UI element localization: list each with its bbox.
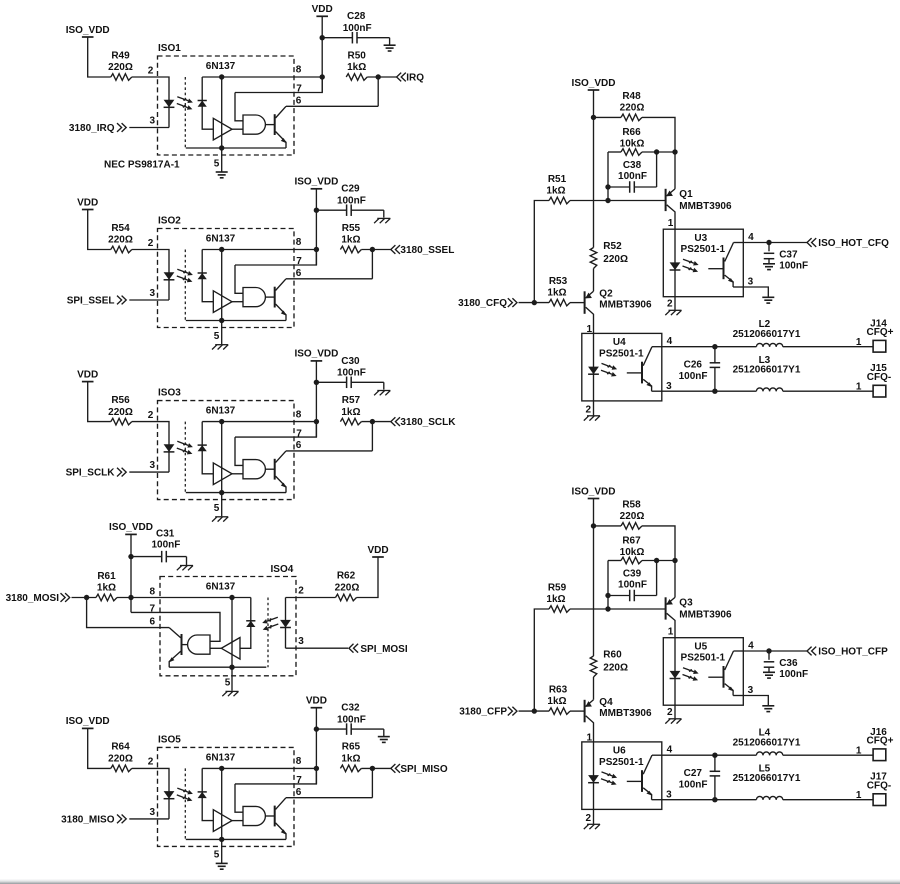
svg-text:3: 3: [298, 636, 304, 647]
svg-text:3: 3: [748, 277, 754, 288]
svg-text:R49: R49: [111, 50, 130, 61]
junction: [314, 419, 319, 424]
svg-text:100nF: 100nF: [779, 669, 808, 680]
wire AND output: [265, 815, 274, 817]
wire Vcc vertical: [221, 77, 223, 148]
net SPI_SCLK chevron: [117, 468, 126, 477]
junction: [84, 595, 89, 600]
wire: [72, 597, 97, 599]
svg-text:6N137: 6N137: [206, 582, 236, 593]
ground (C36): [763, 672, 775, 678]
wire pin 3 row: [662, 390, 757, 392]
opto ISO1 photodiode: [198, 101, 207, 107]
power VDD (right of ISO5): [306, 696, 327, 708]
junction: [712, 389, 717, 394]
junction: [654, 558, 659, 563]
net SPI_MISO chevron: [391, 764, 400, 773]
svg-text:3180_IRQ: 3180_IRQ: [69, 123, 115, 134]
junction: [370, 247, 375, 252]
wire Vcc vertical: [231, 598, 233, 668]
resistor R60: [590, 656, 597, 677]
opto U4 LED: [588, 367, 599, 375]
resistor R64: [111, 765, 132, 772]
capacitor C32: [316, 723, 383, 736]
svg-text:ISO_VDD: ISO_VDD: [294, 349, 338, 360]
svg-text:4: 4: [748, 641, 754, 652]
resistor R59: [549, 606, 570, 613]
svg-text:1kΩ: 1kΩ: [546, 594, 565, 605]
svg-text:220Ω: 220Ω: [108, 754, 133, 765]
svg-text:Q4: Q4: [599, 697, 613, 708]
wire: [593, 677, 595, 700]
svg-text:C30: C30: [341, 356, 360, 367]
svg-text:Q1: Q1: [679, 189, 693, 200]
svg-text:100nF: 100nF: [343, 23, 372, 34]
connector J14: [873, 340, 886, 352]
resistor R54: [111, 246, 132, 253]
svg-text:2: 2: [298, 585, 304, 596]
wire pin 2: [593, 401, 595, 416]
svg-text:2: 2: [148, 410, 154, 421]
junction: [128, 554, 133, 559]
svg-text:2: 2: [148, 65, 154, 76]
svg-text:7: 7: [296, 256, 302, 267]
inductor L2: [756, 343, 782, 346]
svg-text:VDD: VDD: [306, 696, 327, 707]
ground (pin 5): [212, 345, 228, 350]
opto ISO4 isolation barrier: [267, 598, 269, 668]
capacitor C37: [764, 243, 775, 264]
wire: [608, 560, 621, 562]
wire AND output: [182, 644, 188, 646]
svg-text:8: 8: [296, 409, 302, 420]
wire pin 7: [235, 77, 322, 93]
net 3180_CFP chevron: [508, 707, 517, 716]
svg-text:220Ω: 220Ω: [603, 662, 628, 673]
svg-text:100nF: 100nF: [337, 368, 366, 379]
ground (C30): [374, 391, 390, 396]
svg-text:2512066017Y1: 2512066017Y1: [733, 738, 801, 749]
capacitor C39: [608, 561, 657, 602]
svg-text:3: 3: [666, 789, 672, 800]
resistor R53: [549, 299, 570, 306]
svg-text:100nF: 100nF: [779, 260, 808, 271]
svg-text:1kΩ: 1kΩ: [546, 186, 565, 197]
power VDD (right of ISO4): [367, 545, 388, 557]
junction: [314, 247, 319, 252]
svg-text:2512066017Y1: 2512066017Y1: [733, 329, 801, 340]
svg-text:R67: R67: [622, 536, 641, 547]
opto ISO1 buffer amp: [213, 118, 232, 140]
optocoupler U5 box: [663, 638, 743, 706]
svg-text:8: 8: [296, 65, 302, 76]
svg-text:3: 3: [149, 116, 155, 127]
svg-text:R58: R58: [622, 499, 641, 510]
svg-text:SPI_MOSI: SPI_MOSI: [360, 644, 407, 655]
junction: [766, 648, 771, 653]
junction: [370, 766, 375, 771]
junction: [370, 419, 375, 424]
wire: [132, 250, 169, 301]
wire: [88, 382, 111, 422]
wire top rail pin 8: [202, 76, 322, 78]
optocoupler ISO2 box: [158, 229, 295, 328]
wire pin6 to output node: [377, 77, 379, 106]
wire AND input 2: [232, 820, 243, 822]
resistor R66: [621, 149, 642, 156]
power VDD (left of ISO2): [77, 197, 98, 209]
svg-text:2512066017Y1: 2512066017Y1: [733, 365, 801, 376]
svg-text:6N137: 6N137: [206, 61, 236, 72]
wire: [315, 189, 317, 265]
opto ISO1 AND gate: [243, 115, 265, 134]
wire pin 2: [674, 297, 676, 310]
optocoupler ISO3 box: [158, 401, 295, 500]
net ISO_HOT_CFQ chevron: [807, 238, 816, 247]
svg-text:4: 4: [748, 232, 754, 243]
transistor Q3 (PNP): [666, 597, 675, 637]
capacitor C27: [710, 755, 721, 800]
wire pin 4 output: [743, 242, 807, 244]
svg-text:2: 2: [585, 405, 591, 416]
svg-text:MMBT3906: MMBT3906: [679, 610, 732, 621]
wire bottom rail: [186, 492, 286, 494]
opto ISO3 AND gate: [243, 460, 265, 479]
junction: [219, 766, 224, 771]
junction: [219, 837, 224, 842]
junction: [591, 115, 596, 120]
svg-text:U4: U4: [613, 337, 626, 348]
wire base row: [570, 608, 666, 610]
ground (U5 pin 2): [665, 719, 681, 724]
svg-text:VDD: VDD: [312, 4, 333, 15]
junction: [314, 208, 319, 213]
svg-text:8: 8: [296, 756, 302, 767]
svg-text:1: 1: [856, 381, 862, 392]
capacitor C36: [764, 651, 775, 672]
svg-text:ISO_VDD: ISO_VDD: [66, 25, 110, 36]
inductor L4: [756, 752, 782, 755]
opto U3 phototransistor: [708, 243, 734, 288]
svg-text:100nF: 100nF: [337, 715, 366, 726]
wire pin 5: [221, 839, 223, 863]
wire pin 3 inside: [652, 390, 662, 392]
wire: [607, 561, 609, 610]
opto ISO1 light arrows: [177, 97, 193, 110]
wire: [642, 151, 675, 153]
wire: [519, 302, 550, 304]
svg-text:1kΩ: 1kΩ: [341, 235, 360, 246]
svg-text:2: 2: [585, 813, 591, 824]
ground (ISO4 pin 5): [222, 691, 238, 696]
wire pin 7: [235, 768, 316, 784]
svg-text:3: 3: [666, 381, 672, 392]
svg-text:6: 6: [296, 95, 302, 106]
wire: [361, 421, 390, 423]
svg-text:220Ω: 220Ω: [108, 62, 133, 73]
wire: [642, 117, 675, 188]
opto U4 light arrows: [601, 363, 617, 376]
svg-text:R66: R66: [622, 127, 641, 138]
wire: [570, 302, 585, 304]
svg-text:220Ω: 220Ω: [108, 407, 133, 418]
wire bottom rail: [169, 666, 266, 668]
resistor R63: [549, 708, 570, 715]
wire pin6 to output node: [371, 768, 373, 797]
connector J15: [873, 385, 886, 397]
wire pin 5: [221, 321, 223, 345]
wire: [783, 799, 873, 801]
wire pin 3: [743, 287, 768, 297]
junction: [320, 74, 325, 79]
wire: [357, 557, 379, 598]
svg-text:1kΩ: 1kΩ: [547, 288, 566, 299]
opto ISO5 isolation barrier: [184, 768, 186, 839]
junction: [605, 184, 610, 189]
svg-text:1: 1: [856, 745, 862, 756]
wire pin 1 to pin 2 vertical: [593, 742, 595, 810]
power ISO_VDD (left of ISO1): [66, 25, 110, 37]
opto ISO4 LED: [280, 620, 291, 628]
resistor R49: [111, 74, 132, 81]
wire AND input 2: [210, 647, 221, 649]
svg-text:3180_SCLK: 3180_SCLK: [400, 417, 456, 428]
junction: [654, 149, 659, 154]
connector J16: [873, 749, 886, 761]
ground (C32): [378, 737, 390, 743]
opto U6 phototransistor: [627, 755, 653, 800]
wire pin 4 output: [743, 650, 807, 652]
opto ISO3 light arrows: [177, 441, 193, 454]
svg-text:220Ω: 220Ω: [603, 254, 628, 265]
svg-text:7: 7: [296, 428, 302, 439]
wire pin 4 inside: [652, 346, 662, 348]
svg-text:6N137: 6N137: [206, 752, 236, 763]
svg-text:PS2501-1: PS2501-1: [681, 653, 726, 664]
power ISO_VDD (Q3 section): [572, 486, 616, 498]
wire AND input: [235, 93, 243, 121]
svg-text:1: 1: [856, 790, 862, 801]
svg-text:6N137: 6N137: [206, 406, 236, 417]
svg-text:5: 5: [214, 331, 220, 342]
wire pin 1 to pin 2 vertical: [674, 229, 676, 297]
ground (U4 pin 2): [584, 416, 600, 421]
junction: [532, 300, 537, 305]
svg-text:100nF: 100nF: [152, 539, 181, 550]
svg-text:C27: C27: [684, 768, 703, 779]
svg-text:R63: R63: [549, 685, 568, 696]
opto U6 light arrows: [601, 772, 617, 785]
ground (C37): [763, 264, 775, 270]
capacitor C38: [608, 152, 657, 193]
svg-text:6: 6: [296, 440, 302, 451]
junction: [314, 380, 319, 385]
svg-text:ISO_VDD: ISO_VDD: [294, 177, 338, 188]
opto ISO1 output transistor: [275, 106, 287, 148]
wire pin 4 row: [662, 346, 757, 348]
opto U5 phototransistor: [708, 651, 734, 696]
wire pin 7: [235, 422, 316, 438]
opto ISO2 AND gate: [243, 288, 265, 307]
wire: [129, 818, 169, 820]
wire pin 6: [286, 797, 372, 799]
svg-text:220Ω: 220Ω: [108, 235, 133, 246]
wire: [783, 346, 873, 348]
svg-text:R48: R48: [622, 91, 641, 102]
svg-text:NEC PS9817A-1: NEC PS9817A-1: [104, 159, 180, 170]
wire base row: [570, 200, 666, 202]
opto ISO3 LED: [164, 444, 175, 452]
transistor Q1 (PNP): [666, 189, 675, 229]
junction: [712, 753, 717, 758]
wire bottom rail: [186, 838, 286, 840]
optocoupler ISO1 box: [158, 56, 295, 155]
ground (U3 pin 3): [762, 297, 774, 303]
power ISO_VDD (Q1 section): [572, 78, 616, 90]
svg-text:R55: R55: [342, 223, 361, 234]
ground (pin 5): [212, 517, 228, 522]
wire: [130, 534, 132, 612]
opto ISO2 photodiode: [198, 273, 207, 279]
junction: [605, 606, 610, 611]
svg-text:ISO3: ISO3: [158, 388, 181, 399]
wire pin 2: [674, 705, 676, 718]
resistor R61: [96, 594, 117, 601]
wire pin 1 to pin 2 vertical: [674, 638, 676, 706]
inductor L5: [756, 796, 782, 799]
svg-text:R52: R52: [603, 241, 622, 252]
junction: [712, 344, 717, 349]
opto U4 phototransistor: [627, 347, 653, 392]
opto ISO5 LED: [164, 791, 175, 799]
svg-text:C29: C29: [341, 184, 360, 195]
svg-text:100nF: 100nF: [337, 196, 366, 207]
wire: [594, 116, 622, 118]
net 3180_IRQ chevron: [117, 123, 126, 132]
svg-text:MMBT3906: MMBT3906: [599, 708, 652, 719]
svg-text:5: 5: [214, 503, 220, 514]
svg-text:Q3: Q3: [679, 598, 693, 609]
svg-text:CFQ-: CFQ-: [867, 372, 891, 383]
svg-text:R65: R65: [342, 742, 361, 753]
wire pin 3: [286, 647, 349, 649]
svg-text:U6: U6: [613, 746, 626, 757]
wire: [132, 77, 169, 128]
resistor R51: [549, 197, 570, 204]
svg-text:8: 8: [149, 587, 155, 598]
svg-text:U5: U5: [694, 641, 707, 652]
svg-text:3: 3: [748, 685, 754, 696]
wire: [783, 754, 873, 756]
resistor R58: [621, 523, 642, 530]
svg-text:2512066017Y1: 2512066017Y1: [733, 773, 801, 784]
power ISO_VDD (right of ISO3): [294, 349, 338, 361]
ground (pin 5): [216, 172, 228, 178]
wire Vcc vertical: [221, 250, 223, 321]
svg-text:3: 3: [149, 288, 155, 299]
svg-text:3180_MOSI: 3180_MOSI: [6, 593, 60, 604]
svg-text:6: 6: [296, 268, 302, 279]
capacitor C30: [316, 377, 383, 390]
svg-text:IRQ: IRQ: [406, 73, 424, 84]
svg-text:R59: R59: [548, 583, 567, 594]
ground (pin 5): [216, 863, 228, 869]
wire pin 4 inside: [734, 242, 744, 244]
svg-text:PS2501-1: PS2501-1: [681, 244, 726, 255]
svg-text:CFQ+: CFQ+: [867, 736, 894, 747]
svg-text:10kΩ: 10kΩ: [620, 139, 645, 150]
wire AND input: [235, 437, 243, 465]
wire pin 4 inside: [652, 754, 662, 756]
svg-text:3180_CFP: 3180_CFP: [459, 707, 507, 718]
wire AND input 2: [232, 128, 243, 130]
resistor R57: [340, 418, 361, 425]
svg-text:1: 1: [668, 626, 674, 637]
wire AND input 2: [232, 301, 243, 303]
svg-text:R57: R57: [342, 395, 361, 406]
power VDD (right of ISO1): [312, 4, 333, 16]
svg-text:C26: C26: [684, 359, 703, 370]
wire: [315, 708, 317, 784]
wire top rail pin 8: [202, 767, 316, 769]
power ISO_VDD (left of ISO5): [66, 716, 110, 728]
svg-text:R60: R60: [603, 650, 622, 661]
junction: [229, 665, 234, 670]
opto ISO2 light arrows: [177, 269, 193, 282]
wire: [608, 151, 621, 153]
optocoupler U3 box: [663, 229, 743, 297]
opto ISO3 photodiode: [198, 445, 207, 451]
transistor Q2 (PNP): [585, 291, 594, 333]
junction: [219, 74, 224, 79]
svg-text:2: 2: [667, 299, 673, 310]
svg-text:U3: U3: [694, 233, 707, 244]
wire AND input 2: [232, 473, 243, 475]
svg-text:1kΩ: 1kΩ: [547, 696, 566, 707]
junction: [605, 198, 610, 203]
wire: [132, 422, 169, 473]
transistor Q4 (PNP): [585, 700, 594, 742]
wire pin 3 inside: [733, 695, 743, 697]
svg-text:ISO_VDD: ISO_VDD: [66, 716, 110, 727]
wire: [594, 525, 622, 527]
svg-text:R56: R56: [111, 395, 130, 406]
wire bottom rail: [186, 320, 286, 322]
wire: [202, 422, 213, 474]
junction: [219, 247, 224, 252]
junction: [320, 35, 325, 40]
junction: [672, 558, 677, 563]
wire: [361, 249, 390, 251]
wire: [129, 471, 169, 473]
svg-text:Q2: Q2: [599, 288, 613, 299]
svg-text:ISO_VDD: ISO_VDD: [572, 486, 616, 497]
svg-text:100nF: 100nF: [679, 779, 708, 790]
opto ISO5 photodiode: [198, 792, 207, 798]
svg-text:4: 4: [667, 336, 673, 347]
wire: [367, 76, 396, 78]
resistor R50: [346, 74, 367, 81]
svg-text:1: 1: [668, 218, 674, 229]
svg-text:220Ω: 220Ω: [335, 583, 360, 594]
svg-text:1kΩ: 1kΩ: [97, 583, 116, 594]
svg-text:R61: R61: [97, 571, 116, 582]
wire AND input: [235, 265, 243, 293]
junction: [314, 726, 319, 731]
wire AND output: [265, 296, 274, 298]
svg-text:3180_SSEL: 3180_SSEL: [400, 245, 454, 256]
svg-text:7: 7: [149, 604, 155, 615]
